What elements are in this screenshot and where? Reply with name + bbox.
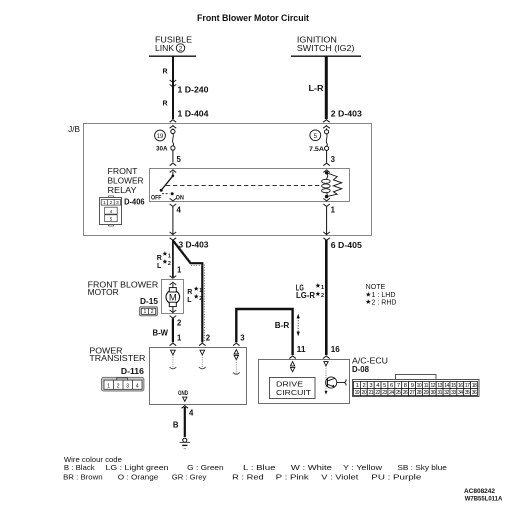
svg-text:FRONT: FRONT [108, 167, 138, 176]
svg-text:19: 19 [157, 134, 164, 140]
svg-text:2 D-403: 2 D-403 [331, 110, 363, 119]
svg-text:5: 5 [110, 217, 113, 223]
svg-text:1: 1 [168, 253, 171, 259]
svg-text:16: 16 [331, 345, 341, 354]
svg-text:R: R [162, 69, 167, 76]
svg-text:19: 19 [355, 390, 360, 396]
svg-text:8: 8 [404, 383, 407, 389]
svg-text:22: 22 [375, 390, 380, 396]
svg-text:J/B: J/B [68, 125, 80, 134]
svg-text:2: 2 [362, 383, 365, 389]
svg-text:1: 1 [321, 285, 324, 291]
svg-text:7.5A: 7.5A [309, 146, 324, 153]
svg-text:LG : Light green: LG : Light green [106, 463, 169, 472]
svg-text:17: 17 [465, 383, 470, 389]
svg-text:D-15: D-15 [140, 297, 159, 306]
svg-text:36: 36 [472, 390, 477, 396]
svg-text:L: L [187, 297, 192, 304]
svg-text:1: 1 [199, 288, 202, 294]
svg-text:4: 4 [110, 209, 113, 215]
svg-text:D-116: D-116 [121, 367, 145, 376]
svg-text:R: R [187, 289, 192, 296]
svg-text:1: 1 [144, 309, 147, 315]
svg-text:MOTOR: MOTOR [88, 288, 119, 297]
svg-text:NOTE: NOTE [366, 284, 386, 291]
svg-text:2: 2 [206, 334, 211, 343]
svg-text:LINK: LINK [155, 44, 175, 53]
svg-text:3: 3 [126, 383, 129, 389]
svg-text:9: 9 [411, 383, 414, 389]
svg-text:10: 10 [417, 383, 422, 389]
svg-text:3: 3 [240, 334, 245, 343]
svg-text:34: 34 [458, 390, 463, 396]
svg-text:29: 29 [424, 390, 429, 396]
svg-text:SB : Sky blue: SB : Sky blue [397, 463, 447, 472]
svg-text:Front Blower Motor Circuit: Front Blower Motor Circuit [197, 13, 309, 23]
svg-text:25: 25 [396, 390, 401, 396]
svg-text:13: 13 [437, 383, 442, 389]
svg-text:21: 21 [368, 390, 373, 396]
svg-text:24: 24 [389, 390, 394, 396]
svg-text:2: 2 [168, 261, 171, 267]
svg-text:SWITCH (IG2): SWITCH (IG2) [297, 44, 355, 53]
svg-text:AC808242: AC808242 [464, 488, 496, 495]
svg-text:1: 1 [103, 200, 106, 205]
svg-text:W : White: W : White [291, 463, 332, 472]
svg-text:30A: 30A [156, 146, 168, 153]
svg-text:2: 2 [321, 293, 324, 299]
svg-text:P : Pink: P : Pink [276, 473, 309, 482]
svg-text:14: 14 [444, 383, 449, 389]
svg-text:R: R [162, 101, 167, 108]
svg-text:31: 31 [437, 390, 442, 396]
svg-text:2: 2 [179, 45, 183, 52]
svg-text:33: 33 [451, 390, 456, 396]
svg-text:3: 3 [369, 383, 372, 389]
svg-text:L: L [157, 263, 162, 270]
svg-text:ON: ON [176, 194, 184, 201]
svg-text:35: 35 [465, 390, 470, 396]
svg-text:7: 7 [397, 383, 400, 389]
svg-text:4: 4 [177, 206, 182, 215]
svg-text:6 D-405: 6 D-405 [331, 241, 363, 250]
svg-text:27: 27 [410, 390, 415, 396]
svg-text:2: 2 [199, 296, 202, 302]
svg-text:M: M [169, 293, 177, 304]
svg-text:D-08: D-08 [352, 365, 370, 374]
svg-text:B-R: B-R [275, 321, 290, 330]
svg-text:W7B55L011A: W7B55L011A [465, 495, 503, 502]
svg-text:1: 1 [356, 383, 359, 389]
svg-text:1 D-404: 1 D-404 [178, 110, 210, 119]
svg-text:1: 1 [107, 383, 110, 389]
svg-text:DRIVE: DRIVE [276, 381, 303, 388]
svg-text:1 : LHD: 1 : LHD [372, 292, 396, 299]
svg-text:2: 2 [117, 383, 120, 389]
svg-text:RELAY: RELAY [108, 186, 138, 195]
svg-text:R: R [157, 255, 162, 262]
svg-text:30: 30 [430, 390, 435, 396]
svg-text:5: 5 [177, 155, 182, 164]
svg-text:1: 1 [177, 266, 182, 275]
svg-text:B : Black: B : Black [64, 463, 95, 472]
svg-text:26: 26 [403, 390, 408, 396]
svg-text:20: 20 [362, 390, 367, 396]
svg-text:2 : RHD: 2 : RHD [372, 299, 397, 306]
svg-text:OFF: OFF [151, 194, 162, 201]
svg-text:2: 2 [151, 309, 154, 315]
svg-text:16: 16 [458, 383, 463, 389]
svg-text:LG-R: LG-R [296, 291, 315, 300]
svg-text:3 D-403: 3 D-403 [179, 241, 210, 250]
svg-text:3: 3 [331, 155, 336, 164]
svg-text:TRANSISTER: TRANSISTER [89, 354, 145, 363]
svg-text:4: 4 [136, 383, 139, 389]
svg-text:28: 28 [417, 390, 422, 396]
svg-text:2: 2 [110, 200, 113, 205]
svg-text:Y : Yellow: Y : Yellow [343, 463, 383, 472]
svg-text:18: 18 [472, 383, 477, 389]
svg-text:2: 2 [177, 319, 182, 328]
svg-text:11: 11 [297, 345, 307, 354]
svg-text:15: 15 [451, 383, 456, 389]
svg-text:PU : Purple: PU : Purple [371, 473, 421, 482]
svg-text:L : Blue: L : Blue [243, 463, 276, 472]
svg-text:GR : Grey: GR : Grey [172, 473, 207, 482]
svg-text:BLOWER: BLOWER [108, 176, 144, 185]
svg-text:11: 11 [424, 383, 429, 389]
svg-text:23: 23 [382, 390, 387, 396]
svg-text:1: 1 [331, 206, 336, 215]
svg-text:3: 3 [116, 200, 119, 205]
svg-text:G : Green: G : Green [187, 463, 224, 472]
svg-text:5: 5 [383, 383, 386, 389]
svg-text:L-R: L-R [309, 84, 324, 93]
svg-text:6: 6 [390, 383, 393, 389]
svg-text:1: 1 [177, 334, 182, 343]
svg-text:1 D-240: 1 D-240 [178, 86, 210, 95]
svg-text:12: 12 [430, 383, 435, 389]
svg-text:BR : Brown: BR : Brown [63, 473, 102, 482]
svg-text:D-406: D-406 [124, 198, 145, 207]
svg-text:GND: GND [178, 390, 188, 397]
svg-text:32: 32 [444, 390, 449, 396]
svg-text:O : Orange: O : Orange [118, 473, 159, 482]
svg-text:B-W: B-W [153, 329, 169, 338]
svg-text:CIRCUIT: CIRCUIT [276, 390, 312, 397]
svg-text:4: 4 [189, 409, 194, 418]
svg-text:V : Violet: V : Violet [321, 473, 358, 482]
svg-text:R : Red: R : Red [232, 473, 264, 482]
svg-text:B: B [173, 421, 179, 430]
